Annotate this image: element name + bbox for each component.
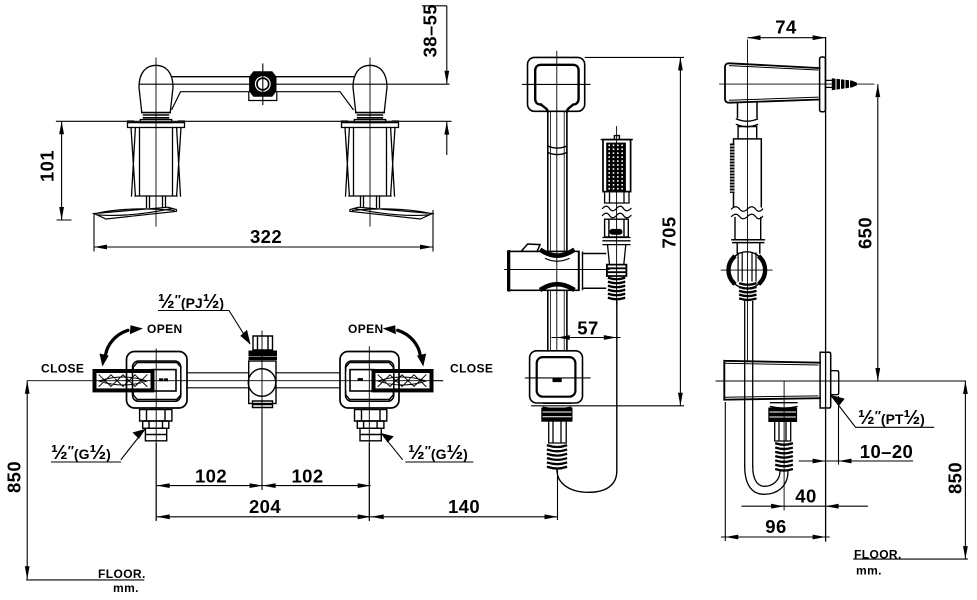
- slider pivot centerline: [505, 269, 609, 271]
- left valve centerline vertical: [155, 349, 157, 520]
- side outlet nut slits: [770, 412, 796, 417]
- hand shower cone: [608, 245, 626, 265]
- dim 96 arrows: [725, 535, 738, 540]
- dim 40 arrows: [771, 504, 784, 509]
- dim 101 arrows: [59, 121, 64, 134]
- dim 102 arrows: [157, 483, 170, 488]
- ext line right valve: [368, 443, 370, 521]
- wall screw ribs: [836, 79, 850, 90]
- dim 705 line: [679, 57, 681, 405]
- bottom bracket inner edges: [724, 363, 818, 397]
- left handle collar: [142, 113, 170, 118]
- left lever hatch: [99, 375, 147, 387]
- hose: [557, 301, 617, 492]
- svg-text:½″(PT½): ½″(PT½): [858, 407, 925, 429]
- dim 850R arrows: [963, 381, 968, 394]
- side outlet flange: [771, 403, 798, 408]
- svg-text:½″(PJ½): ½″(PJ½): [158, 291, 224, 313]
- svg-text:FLOOR.: FLOOR.: [854, 547, 902, 561]
- side break squiggle: [732, 207, 763, 219]
- left valve chamfer top: [133, 363, 181, 371]
- outlet nut black: [541, 408, 572, 422]
- hand shower joint: [603, 238, 630, 245]
- left OPEN arc: [106, 330, 129, 355]
- spray face edge ticks: [730, 146, 734, 191]
- left valve bonnet step2: [143, 421, 169, 428]
- hand shower button pill: [610, 229, 623, 235]
- svg-text:10–20: 10–20: [860, 441, 913, 462]
- hose down double: [745, 302, 753, 467]
- svg-text:mm.: mm.: [113, 581, 139, 595]
- svg-text:OPEN: OPEN: [147, 322, 183, 336]
- rail upper section: [548, 111, 567, 251]
- center nut vertical centerline: [262, 64, 264, 105]
- dim 322 arrows: [94, 245, 107, 250]
- top bracket body inner edges: [730, 66, 819, 101]
- dim 10-20 line: [799, 460, 913, 462]
- dim 102 line: [157, 485, 371, 487]
- dim 101 line: [57, 121, 72, 220]
- right handle collar: [356, 113, 384, 118]
- outlet stem: [549, 422, 567, 443]
- leader line PJ: [158, 311, 250, 345]
- center nut inner circle: [257, 78, 269, 90]
- right valve centerline vertical: [368, 347, 370, 520]
- leader PT: [831, 396, 934, 427]
- bottom wall plate: [820, 352, 831, 408]
- dim 850R line: [964, 381, 966, 559]
- handshower side tube: [734, 139, 762, 207]
- side outlet nut black: [768, 408, 797, 423]
- center union collar bands: [250, 352, 276, 359]
- left OPEN arc arrowheads: [100, 354, 109, 367]
- rail upper inner lines: [551, 111, 565, 251]
- wall line: [825, 38, 827, 541]
- right stem: [361, 196, 380, 208]
- dim 40 line: [742, 505, 868, 507]
- dim 705 arrows: [678, 57, 683, 70]
- center union top fitting: [253, 336, 273, 350]
- dim 74 line: [748, 37, 826, 39]
- right valve chamfer bottom: [346, 391, 394, 399]
- top bracket inner: [535, 65, 578, 112]
- wall screw body: [832, 78, 857, 90]
- leader arrow PJ: [240, 330, 250, 345]
- svg-text:OPEN: OPEN: [348, 322, 384, 336]
- bracket horizontal centerline: [720, 83, 874, 85]
- right escutcheon flange: [342, 121, 399, 128]
- svg-text:CLOSE: CLOSE: [41, 362, 84, 376]
- leader line G1/2 left: [51, 429, 145, 462]
- svg-text:101: 101: [37, 150, 58, 182]
- left valve nut: [145, 428, 166, 441]
- svg-text:322: 322: [250, 226, 282, 247]
- left hub dots: [160, 378, 166, 381]
- svg-text:650: 650: [855, 217, 876, 249]
- slider ring thick sides: [728, 258, 733, 283]
- horizontal centerline of valves: [27, 380, 443, 382]
- top wall plate: [820, 57, 826, 112]
- svg-text:57: 57: [577, 318, 598, 339]
- neck joint rings: [737, 119, 758, 127]
- ext line outlet: [557, 470, 559, 520]
- right valve bonnet step1: [355, 410, 387, 421]
- svg-text:FLOOR.: FLOOR.: [98, 567, 146, 581]
- dim 96 line: [721, 536, 830, 538]
- centerline left handle: [155, 58, 157, 226]
- floor line left: [26, 579, 144, 581]
- svg-text:204: 204: [249, 496, 281, 517]
- right base lens: [350, 207, 433, 219]
- bottom bracket inner: [537, 357, 576, 397]
- right OPEN arc: [398, 330, 421, 355]
- right handle collar base: [354, 120, 385, 123]
- top bracket outer: [528, 57, 585, 111]
- hand shower head: [603, 140, 631, 192]
- svg-text:½″(G½): ½″(G½): [408, 442, 468, 464]
- ext line center: [261, 409, 263, 490]
- top bracket cross line: [522, 83, 590, 85]
- right body taper: [345, 128, 395, 197]
- center union bottom: [253, 401, 273, 408]
- leader arrow PT: [831, 395, 845, 405]
- side lower tube: [735, 218, 761, 240]
- right lever: [374, 371, 432, 390]
- center nut: [249, 71, 276, 96]
- svg-text:850: 850: [945, 462, 966, 494]
- rail centerline mid: [556, 120, 558, 350]
- deck line: [57, 120, 452, 122]
- handshower side neck: [738, 127, 757, 139]
- centerline right handle: [369, 58, 371, 226]
- right valve inner square: [346, 361, 394, 401]
- dim 38-55 arrows: [444, 71, 449, 84]
- dim 57 arrows: [557, 335, 570, 340]
- floor line right: [853, 558, 968, 560]
- dim 650 arrows: [875, 84, 880, 97]
- ext line left valve: [155, 443, 157, 521]
- svg-text:850: 850: [4, 461, 25, 493]
- bottom bracket center dash: [553, 378, 562, 382]
- left valve bonnet step1: [140, 410, 172, 421]
- slider release tab: [521, 244, 540, 251]
- bottom bracket outer: [530, 351, 583, 403]
- pipe left-to-center: [187, 373, 249, 388]
- svg-text:102: 102: [291, 466, 323, 487]
- pipe center-to-right: [276, 373, 340, 388]
- right hub dot: [359, 378, 362, 381]
- left valve hub: [152, 370, 176, 391]
- coil below ring: [740, 284, 755, 300]
- ext line 705 top: [585, 56, 684, 58]
- hand shower centerline: [616, 127, 618, 305]
- dim 204/140 arrows: [157, 514, 170, 519]
- svg-text:96: 96: [765, 516, 786, 537]
- ext line bracket left: [724, 402, 726, 541]
- bottom bracket side body: [724, 361, 820, 400]
- side outlet centerline: [783, 381, 785, 510]
- left body taper: [131, 128, 181, 197]
- wall screw shaft: [826, 80, 832, 87]
- svg-text:mm.: mm.: [856, 564, 882, 578]
- right dome handle: [353, 65, 387, 112]
- left valve chamfer bottom: [133, 391, 181, 399]
- rail centerline vertical: [747, 40, 749, 362]
- ext line wall stub: [838, 396, 840, 465]
- outlet nut slits: [543, 412, 571, 417]
- slider arm double line: [579, 252, 583, 289]
- left dome handle: [139, 65, 173, 112]
- right valve nut: [360, 428, 381, 441]
- ext line 705 bottom: [531, 405, 684, 407]
- top bracket body: [725, 63, 820, 102]
- hand shower coil: [609, 278, 624, 299]
- bridge bar bottom edge (extends right as extension line): [139, 83, 449, 85]
- dim 322 lines: [94, 210, 433, 252]
- dim 38-55 lines: [422, 6, 447, 155]
- right lever centerline tail: [432, 380, 443, 382]
- center union ball circle: [248, 369, 276, 397]
- rail lower inner lines: [551, 290, 565, 351]
- hand shower nut: [607, 265, 627, 276]
- svg-text:705: 705: [659, 216, 680, 248]
- bottom wall stub: [831, 371, 839, 395]
- spray face dots: [606, 143, 626, 192]
- svg-text:38–55: 38–55: [420, 4, 441, 57]
- bridge bar top edge: [172, 76, 354, 78]
- leader arrow G1/2 right: [381, 433, 394, 443]
- dim 650 line: [877, 84, 879, 381]
- hand shower handle: [605, 219, 629, 237]
- svg-text:40: 40: [795, 486, 816, 507]
- hose U outer: [745, 466, 788, 494]
- rail centerline: [556, 51, 558, 120]
- svg-text:CLOSE: CLOSE: [450, 362, 493, 376]
- rail joint sleeve: [548, 146, 567, 155]
- hand shower collar: [605, 192, 629, 203]
- svg-text:½″(G½): ½″(G½): [51, 442, 111, 464]
- dim 10-20 arrows: [813, 459, 826, 464]
- slider arm to handshower: [583, 254, 606, 289]
- outlet flange: [544, 403, 571, 408]
- bottom bracket cross line: [525, 377, 590, 379]
- slider left edge thick: [508, 251, 511, 290]
- right valve chamfer top: [346, 363, 394, 371]
- slider top clamp inner arc: [546, 259, 570, 262]
- outlet coil: [548, 446, 566, 469]
- center fitting centerline vertical: [261, 331, 263, 489]
- hand shower head top: [601, 136, 632, 140]
- svg-text:74: 74: [775, 17, 797, 38]
- center union body: [249, 361, 276, 404]
- dim 850L line: [26, 381, 28, 580]
- slider bottom clamp crescent: [542, 284, 573, 289]
- svg-text:102: 102: [195, 466, 227, 487]
- svg-text:140: 140: [448, 496, 480, 517]
- side joint line: [732, 240, 764, 243]
- side outlet coil: [776, 444, 792, 471]
- hose U inner: [753, 466, 780, 486]
- slider ring circle: [729, 252, 766, 289]
- left lever: [95, 371, 153, 390]
- left valve inner square: [133, 361, 181, 401]
- rail lower section: [548, 290, 567, 351]
- dim 74 arrows: [748, 35, 761, 40]
- leader arrow G1/2 left: [133, 429, 146, 439]
- left stem: [147, 196, 166, 208]
- right OPEN arc arrowheads: [417, 354, 426, 367]
- left handle collar base: [140, 120, 171, 123]
- dim 57 line: [552, 337, 621, 339]
- right valve outer square: [340, 352, 399, 409]
- reference line at outlet level: [716, 380, 965, 382]
- leader line G1/2 right: [381, 433, 473, 462]
- ring centerline: [721, 269, 772, 271]
- left base lens: [94, 207, 177, 219]
- slider top clamp crescent: [542, 251, 573, 256]
- right valve hub: [350, 370, 374, 391]
- tube through ring: [738, 253, 756, 281]
- side outlet stem: [775, 422, 791, 441]
- dim 850L arrows: [25, 381, 30, 394]
- neck below bracket: [738, 103, 758, 118]
- spray face edge strip: [730, 144, 735, 193]
- side tube below joint: [737, 243, 760, 253]
- bridge bar front profile with center notch: [172, 92, 353, 110]
- slider body: [508, 251, 579, 290]
- right valve bonnet step2: [357, 421, 384, 428]
- hand shower break squiggle: [603, 206, 632, 218]
- left valve outer square: [127, 352, 188, 409]
- right lever hatch: [378, 375, 426, 387]
- dim 204-140 line: [157, 516, 558, 518]
- left escutcheon flange: [128, 121, 185, 128]
